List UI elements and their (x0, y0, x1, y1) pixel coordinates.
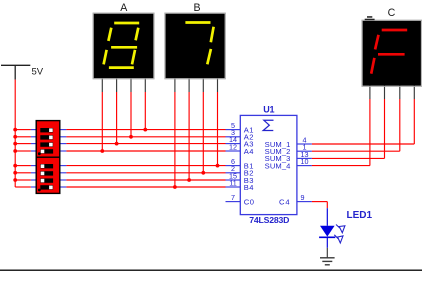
svg-text:B4: B4 (244, 183, 254, 192)
svg-text:C4: C4 (279, 197, 291, 206)
svg-text:A: A (120, 2, 128, 14)
svg-text:9: 9 (301, 193, 305, 202)
svg-text:SUM_4: SUM_4 (265, 161, 291, 170)
svg-text:C0: C0 (244, 197, 255, 206)
svg-text:11: 11 (229, 178, 236, 187)
svg-text:LED1: LED1 (347, 210, 373, 221)
svg-text:5V: 5V (32, 67, 44, 78)
svg-text:C: C (388, 7, 396, 19)
svg-text:U1: U1 (263, 104, 274, 114)
svg-text:12: 12 (229, 142, 237, 151)
svg-text:74LS283D: 74LS283D (249, 215, 289, 225)
svg-text:B: B (193, 2, 200, 14)
svg-text:A4: A4 (244, 147, 254, 156)
svg-text:10: 10 (301, 157, 309, 166)
svg-text:7: 7 (231, 193, 235, 202)
